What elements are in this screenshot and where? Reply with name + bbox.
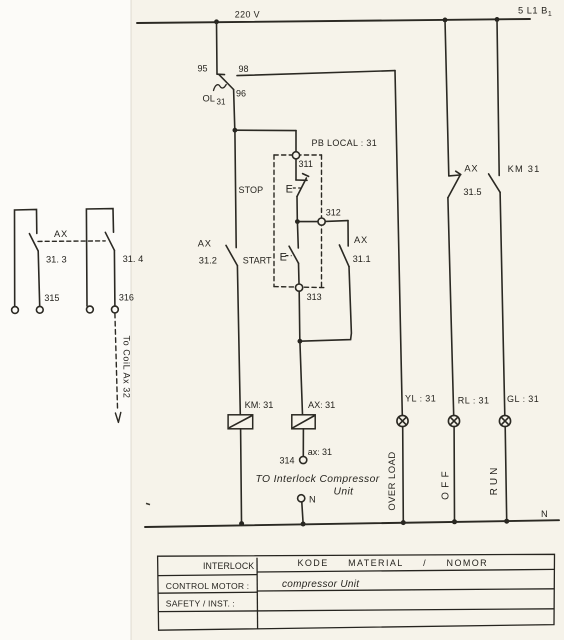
terminal 315 circle: [36, 306, 43, 313]
wire: bus to OL contact: [216, 22, 219, 74]
wire: down to terminal 311: [295, 131, 297, 152]
wire: node to coil AX31: [300, 341, 303, 414]
svg-text:95: 95: [198, 64, 208, 74]
svg-text:N: N: [541, 509, 548, 519]
wire: lamp RL31 to bottom bus: [453, 427, 455, 521]
node: junction KM31 / bottom bus: [239, 521, 244, 526]
svg-text:98: 98: [239, 64, 249, 74]
svg-text:31.5: 31.5: [463, 187, 481, 197]
coil AX31 box: [292, 415, 315, 429]
wire: KM31 contact branch from bus: [497, 19, 499, 175]
pushbutton E-stop NC blade: [297, 178, 306, 197]
wire: terminal N to bottom bus: [302, 502, 303, 521]
wire: 311 to stop pushbutton: [295, 159, 297, 180]
svg-text:To CoiL Ax 32: To CoiL Ax 32: [122, 336, 132, 399]
table outer border: [158, 554, 555, 630]
wire: 98 branch horizontal to overload lamp column: [237, 71, 395, 76]
stray mark: [146, 503, 150, 504]
table divider: [256, 558, 259, 629]
contact AX31.3 blade: [29, 234, 38, 251]
node: junction RL31 / bottom bus: [452, 519, 457, 524]
pushbutton dashed enclosure PB LOCAL: [274, 155, 325, 288]
wire: junction to PB LOCAL branch (horizontal): [235, 129, 296, 131]
table row line under SAFETY: [158, 609, 554, 612]
table row underline compressor unit: [257, 589, 554, 591]
svg-text:311: 311: [299, 159, 313, 169]
svg-text:CONTROL MOTOR :: CONTROL MOTOR :: [166, 581, 249, 591]
contact AX31.4 blade: [105, 232, 114, 250]
pushbutton START NO blade: [289, 246, 298, 263]
svg-text:STOP: STOP: [239, 185, 264, 195]
svg-text:AX: AX: [354, 235, 368, 245]
node: junction top bus / KM31 branch: [495, 17, 500, 22]
wire: AX31.1 down and back to coil node: [300, 267, 351, 342]
pushbutton E-stop NC tick: [296, 179, 307, 181]
contact AX31.5 blade (NC): [448, 175, 460, 197]
svg-text:31: 31: [217, 97, 226, 106]
wire: AX31.4 to terminal 316: [113, 250, 116, 305]
svg-text:E: E: [286, 184, 293, 196]
svg-text:Unit: Unit: [334, 487, 355, 498]
pushbutton E-stop NC blade serif: [303, 174, 309, 177]
lamp YL31: [397, 415, 408, 426]
svg-text:OL: OL: [203, 94, 215, 104]
terminal 316 circle: [112, 306, 119, 313]
wire: junction to terminal 312: [297, 221, 317, 223]
svg-text:AX: AX: [198, 238, 212, 248]
node: junction top bus / OL branch: [214, 19, 219, 24]
svg-text:KM 31: KM 31: [508, 164, 541, 174]
contact AX31.2 blade (STOP, NO): [226, 245, 237, 265]
wire: coil AX31 to terminal 314: [302, 429, 304, 456]
node: junction OL output / STOP branch / PB branch: [233, 128, 238, 133]
contact AX31.3 terminal bracket: [15, 210, 37, 307]
contact AX31.5 tick serif: [456, 171, 461, 174]
svg-text:AX: AX: [54, 229, 68, 239]
svg-text:RUN: RUN: [489, 465, 500, 496]
svg-text:316: 316: [119, 293, 134, 303]
svg-text:314: 314: [280, 455, 295, 465]
wire: 313 down to coil node: [298, 292, 301, 339]
svg-text:AX: 31: AX: 31: [308, 400, 335, 410]
svg-text:N: N: [309, 494, 316, 504]
svg-text:312: 312: [326, 208, 341, 218]
node: junction AX31 coil branch: [298, 339, 303, 344]
svg-text:INTERLOCK: INTERLOCK: [203, 561, 254, 571]
terminal circle left3: [87, 306, 94, 313]
wire: AX31.5 branch from bus: [445, 20, 449, 176]
svg-text:315: 315: [44, 293, 59, 303]
contact KM31 blade (NO): [489, 174, 501, 192]
terminal 314: [300, 456, 307, 463]
svg-text:220 V: 220 V: [235, 10, 260, 20]
node: junction N / bottom bus: [301, 522, 306, 527]
wire: OL contact to junction (pin 96 side): [234, 90, 235, 130]
svg-text:YL : 31: YL : 31: [405, 394, 436, 404]
contact AX31.1 blade (NO): [339, 245, 349, 267]
arrowhead to coil AX32: [115, 412, 120, 422]
svg-text:96: 96: [236, 89, 246, 99]
lamp GL31: [499, 415, 510, 426]
svg-text:OFF: OFF: [440, 467, 451, 500]
wire: top supply bus 220V: [137, 19, 530, 23]
wire: lamp YL31 to bottom bus: [402, 427, 405, 521]
wire: coil KM31 to bottom bus: [240, 429, 243, 521]
wire: start button upper lead: [296, 222, 299, 248]
table header underline KODE: [257, 569, 554, 572]
wire: dashed lead to coil AX32: [115, 313, 118, 411]
wire: bottom neutral bus N: [145, 520, 559, 527]
svg-text:TO Interlock Compressor: TO Interlock Compressor: [256, 474, 380, 485]
svg-text:START: START: [243, 255, 272, 265]
contact AX31.5 tick: [449, 174, 460, 177]
node: junction top bus / AX31.5 branch: [443, 18, 448, 23]
svg-text:RL : 31: RL : 31: [458, 396, 490, 406]
svg-text:31.1: 31.1: [353, 254, 371, 264]
wire: overload lamp branch vertical: [395, 71, 402, 416]
wire: AX31.5 to lamp RL31: [448, 198, 454, 416]
svg-text:PB LOCAL : 31: PB LOCAL : 31: [312, 138, 378, 148]
terminal N: [298, 495, 305, 502]
overload relay contact OL31 blade: [219, 75, 233, 90]
overload relay OL31 heater squiggle: [214, 85, 227, 91]
svg-text:KODE MATERIAL / NO: KODE MATERIAL / NOMOR: [298, 558, 489, 568]
svg-text:AX: AX: [464, 164, 478, 174]
terminal 313: [296, 284, 303, 291]
wire: start button to terminal 313: [298, 263, 301, 283]
overload relay contact OL31 fixed tick (pin 95): [217, 73, 225, 75]
coil KM31 box: [228, 415, 253, 429]
wire: KM31 contact to lamp GL31: [500, 192, 505, 415]
svg-text:ax: 31: ax: 31: [308, 447, 332, 457]
lamp RL31: [448, 415, 459, 426]
dash E to blade: [293, 187, 301, 189]
contact AX31.4 terminal bracket: [86, 209, 113, 306]
svg-text:GL : 31: GL : 31: [507, 394, 539, 404]
node: junction above start button: [295, 219, 300, 224]
svg-text:31. 4: 31. 4: [123, 254, 144, 264]
svg-text:compressor Unit: compressor Unit: [282, 579, 360, 590]
terminal circle left1: [12, 307, 19, 314]
dash E to blade (start): [285, 255, 291, 257]
wire: 312 to AX31.1 branch: [326, 220, 348, 223]
table row line under CONTROL MOTOR: [158, 592, 257, 593]
wire: AX31.2 to coil KM31: [237, 266, 240, 415]
wire: lamp GL31 to bottom bus: [505, 427, 507, 521]
svg-text:OVER LOAD: OVER LOAD: [386, 451, 397, 510]
wire: AX31.3 to terminal 315: [38, 251, 40, 306]
table row line under INTERLOCK: [158, 575, 257, 576]
svg-text:SAFETY / INST. :: SAFETY / INST. :: [166, 599, 235, 609]
mechanical link AX dashed: [38, 240, 105, 243]
node: junction YL31 / bottom bus: [401, 520, 406, 525]
wire: E-stop to junction: [296, 197, 298, 220]
svg-text:31. 3: 31. 3: [46, 255, 67, 265]
svg-text:313: 313: [307, 292, 322, 302]
wire: STOP branch vertical: [235, 130, 236, 247]
svg-text:E: E: [280, 252, 287, 264]
terminal 312: [318, 218, 325, 225]
terminal 311: [292, 152, 299, 159]
svg-text:31.2: 31.2: [199, 256, 217, 266]
node: junction GL31 / bottom bus: [504, 519, 509, 524]
svg-text:KM: 31: KM: 31: [245, 400, 274, 410]
